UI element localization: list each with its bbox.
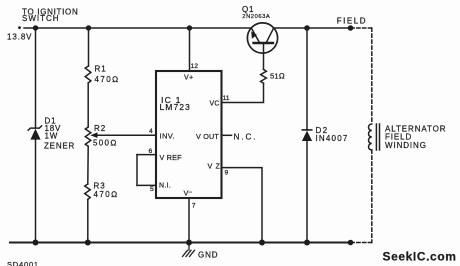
svg-text:51Ω: 51Ω (270, 71, 285, 80)
wire feedback loop pin6 to pin5 (136, 155, 138, 186)
svg-text:GND: GND (198, 250, 218, 259)
svg-text:R2: R2 (94, 124, 106, 133)
node bottom pin7 gnd (186, 240, 192, 246)
svg-text:4: 4 (149, 128, 153, 135)
svg-text:5: 5 (150, 186, 154, 193)
svg-text:V REF: V REF (160, 153, 183, 162)
resistor R2 500 potentiometer element (85, 127, 91, 146)
svg-text:Q1: Q1 (242, 5, 254, 14)
wire dashed right side (field winding leads) upper (371, 28, 373, 124)
transistor Q1 2N2063A (247, 23, 277, 53)
node R1 top junction (86, 25, 91, 30)
wire R2 wiper to pin 4 with arrowhead (90, 132, 156, 138)
svg-text:12: 12 (191, 63, 199, 70)
inductor alternator field winding coil (369, 124, 372, 150)
svg-text:2N2063A: 2N2063A (242, 14, 270, 20)
svg-text:SD4001: SD4001 (7, 260, 39, 266)
svg-text:9: 9 (225, 170, 229, 177)
svg-text:N.C.: N.C. (234, 132, 258, 141)
zener diode D1 (28, 126, 41, 140)
wire top rail right segment (collector to FIELD) (274, 27, 352, 29)
wire R2 to R3 (87, 146, 89, 184)
wire left column below D1 (35, 140, 37, 243)
svg-text:VC: VC (210, 100, 220, 107)
svg-text:470Ω: 470Ω (94, 190, 119, 199)
svg-text:SWITCH: SWITCH (22, 14, 60, 23)
svg-text:FIELD: FIELD (337, 17, 367, 26)
node V+ pin12 junction (187, 25, 192, 30)
label TO IGNITION SWITCH (22, 8, 78, 23)
resistor R1 470 (85, 66, 91, 83)
wire pin 11 VC to 51 ohm (222, 83, 264, 102)
wire dashed right side lower (371, 150, 373, 243)
node bottom R3 (85, 240, 91, 246)
wire dashed top rail to field winding (351, 27, 372, 29)
svg-text:N.I.: N.I. (159, 183, 171, 190)
svg-text:ZENER: ZENER (44, 141, 75, 150)
svg-text:R1: R1 (95, 65, 107, 74)
wire R1 to R2 (87, 83, 89, 127)
wire top rail left segment (24, 27, 252, 29)
svg-text:13.8V: 13.8V (7, 32, 32, 41)
wire pin 6 VREF stub (137, 154, 156, 156)
wire dashed bottom rail to field winding (351, 242, 372, 244)
svg-text:6: 6 (149, 148, 153, 155)
node bottom D2 (304, 240, 310, 246)
wire FIELD node down to D2 (306, 28, 308, 130)
label ALTERNATOR FIELD WINDING (385, 124, 446, 150)
wire pin 7 to ground rail (188, 198, 190, 243)
svg-text:INV.: INV. (160, 131, 176, 140)
wire D2 to bottom rail (306, 141, 308, 243)
node FIELD terminal (348, 25, 354, 31)
wire pin 12 V+ stub (189, 28, 191, 71)
svg-text:V OUT: V OUT (196, 132, 219, 141)
ground symbol (183, 243, 195, 257)
svg-text:V+: V+ (184, 74, 194, 81)
wire VOUT stub to N.C. (222, 134, 232, 136)
node bottom right terminal (348, 240, 354, 246)
wire pin 9 VZ return to rail (222, 168, 263, 243)
node bottom VZ (259, 240, 265, 246)
svg-text:LM723: LM723 (160, 102, 191, 112)
inductor core bars (375, 124, 377, 150)
wire bottom ground rail (10, 242, 351, 244)
wire pin 5 NI stub (137, 184, 156, 186)
svg-text:SeekIC.com: SeekIC.com (383, 249, 457, 263)
svg-text:11: 11 (223, 95, 230, 102)
label D1 18V 1W ZENER (44, 117, 75, 151)
node top-left junction (33, 25, 38, 30)
node + supply terminal mark (18, 26, 21, 29)
svg-text:V Z: V Z (208, 161, 221, 170)
wire left column above D1 (35, 28, 37, 128)
wire second column: rail to R1 (88, 28, 90, 66)
resistor R3 470 (85, 184, 91, 199)
resistor 51 ohm (261, 69, 267, 83)
svg-text:470Ω: 470Ω (95, 75, 120, 84)
svg-text:WINDING: WINDING (385, 141, 427, 150)
svg-text:IN4007: IN4007 (316, 134, 349, 143)
svg-text:7: 7 (192, 203, 196, 210)
wire R3 to bottom rail (87, 199, 89, 242)
svg-text:500Ω: 500Ω (93, 138, 118, 147)
wire 51 ohm to Q1 base (263, 43, 265, 69)
diode D2 1N4007 (302, 130, 312, 141)
node bottom D1 (33, 240, 39, 246)
svg-text:1W: 1W (45, 132, 59, 141)
node D2 top junction (304, 25, 310, 31)
op-amp regulator IC1 LM723 box (156, 71, 222, 198)
